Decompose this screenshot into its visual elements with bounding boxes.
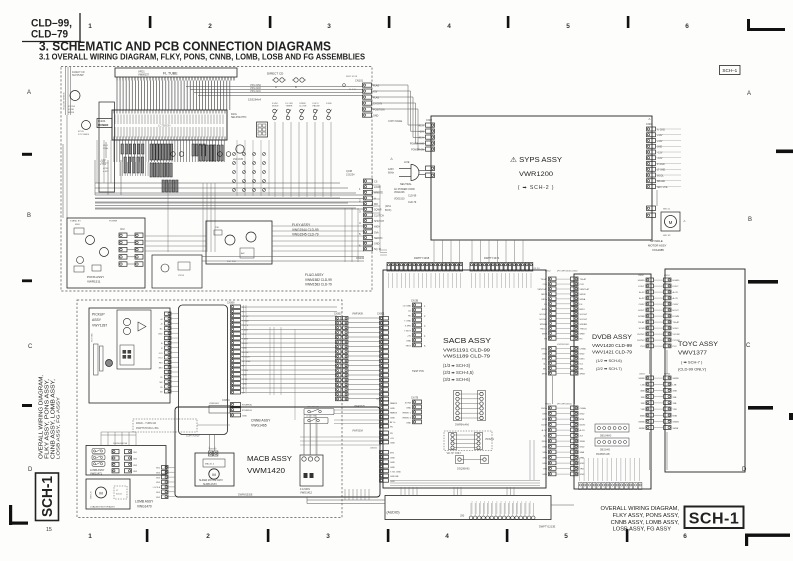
svg-text:Y3B: Y3B — [640, 409, 645, 411]
svg-text:DWPM1535E: DWPM1535E — [238, 494, 253, 497]
svg-text:CSYNC: CSYNC — [637, 340, 645, 342]
svg-text:5: 5 — [566, 23, 570, 30]
svg-text:DB31H43: DB31H43 — [600, 450, 611, 452]
svg-text:C3O: C3O — [543, 284, 548, 286]
svg-text:RTURN B: RTURN B — [242, 410, 252, 412]
svg-text:SHUTCH: SHUTCH — [374, 220, 384, 223]
svg-text:4: 4 — [445, 533, 449, 540]
svg-text:CLD-99: CLD-99 — [408, 194, 417, 197]
svg-text:VW3170: VW3170 — [91, 490, 93, 499]
svg-text:REMO 2: REMO 2 — [403, 418, 412, 420]
svg-text:33B: 33B — [673, 397, 677, 399]
svg-text:M: M — [99, 491, 102, 496]
svg-text:CN306: CN306 — [227, 302, 235, 305]
svg-text:AC H: AC H — [419, 137, 425, 140]
svg-text:3: 3 — [327, 23, 331, 30]
svg-text:CHSA: CHSA — [541, 407, 548, 410]
svg-text:FL TUBE: FL TUBE — [163, 72, 178, 76]
svg-text:BTM: BTM — [580, 419, 585, 421]
svg-text:VWV1420 CLD-99: VWV1420 CLD-99 — [592, 343, 633, 348]
svg-text:GND: GND — [580, 447, 585, 449]
svg-text:LIVE: LIVE — [404, 161, 410, 164]
svg-text:MO: MO — [374, 203, 378, 206]
svg-text:PONS ASSY: PONS ASSY — [87, 275, 104, 279]
svg-text:THOLD: THOLD — [540, 329, 548, 331]
svg-text:LD: LD — [408, 311, 411, 313]
svg-text:COPY/GN&E: COPY/GN&E — [388, 120, 403, 123]
svg-text:F.USE: F.USE — [68, 109, 75, 111]
svg-text:VDG1510: VDG1510 — [394, 198, 405, 201]
svg-text:B: B — [27, 213, 31, 219]
svg-text:VWS1191 CLD-99: VWS1191 CLD-99 — [443, 348, 491, 353]
svg-text:A+3V: A+3V — [639, 297, 645, 300]
svg-text:SRB: SRB — [580, 458, 585, 460]
svg-text:2SC1345: 2SC1345 — [233, 158, 244, 161]
svg-text:VWRSP0805: VWRSP0805 — [557, 344, 570, 346]
svg-text:+13V: +13V — [657, 141, 663, 143]
svg-text:CHSA: CHSA — [541, 348, 548, 351]
svg-text:DWPTST1539-1-35A: DWPTST1539-1-35A — [136, 427, 159, 430]
svg-text:GND BB: GND BB — [390, 476, 399, 478]
svg-text:SCH3: SCH3 — [673, 328, 680, 330]
svg-text:ASSY: ASSY — [92, 318, 102, 322]
svg-text:SRL 9P: SRL 9P — [663, 235, 671, 237]
svg-text:CN102: CN102 — [356, 256, 365, 260]
svg-text:GND: GND — [542, 474, 547, 476]
svg-text:–13V: –13V — [657, 158, 663, 160]
svg-text:CN304: CN304 — [222, 399, 230, 402]
svg-text:DWPB4x4A6: DWPB4x4A6 — [455, 424, 470, 427]
svg-text:POWER ON: POWER ON — [411, 150, 424, 152]
svg-text:VWV1421 CLD-79: VWV1421 CLD-79 — [592, 350, 633, 355]
svg-text:(2/2 ➡ SCH-7): (2/2 ➡ SCH-7) — [596, 366, 622, 371]
svg-text:2: 2 — [208, 23, 212, 30]
svg-text:53X1: 53X1 — [580, 359, 586, 361]
svg-text:HGMG: HGMG — [638, 280, 645, 282]
svg-text:CN07: CN07 — [646, 123, 653, 126]
svg-text:CHSA: CHSA — [580, 348, 587, 351]
svg-text:CN 3O: CN 3O — [533, 268, 540, 270]
svg-text:VWR1511: VWR1511 — [87, 280, 101, 284]
svg-text:CN 3B: CN 3B — [411, 300, 418, 303]
svg-text:VWG1412: VWG1412 — [300, 491, 313, 495]
svg-text:CN 7B: CN 7B — [411, 397, 418, 400]
svg-text:CH3V: CH3V — [639, 304, 645, 306]
svg-text:3L103: 3L103 — [116, 494, 122, 496]
svg-text:+13V: +13V — [657, 135, 663, 137]
svg-text:A–5V: A–5V — [542, 429, 548, 432]
svg-text:C: C — [746, 343, 751, 349]
svg-text:M: M — [669, 220, 673, 225]
svg-text:OVERALL WIRING DIAGRAM,: OVERALL WIRING DIAGRAM, — [601, 506, 680, 512]
svg-text:GM3B: GM3B — [638, 422, 645, 424]
svg-text:VENTLAT: VENTLAT — [537, 288, 547, 291]
svg-text:HGMG: HGMG — [673, 280, 680, 282]
svg-text:DVDB ASSY: DVDB ASSY — [592, 334, 633, 341]
svg-text:LOMB ASSY: LOMB ASSY — [135, 500, 154, 504]
svg-text:SCOHT: SCOHT — [539, 319, 547, 321]
svg-text:TSLAT: TSLAT — [638, 321, 645, 324]
svg-text:SCH-1: SCH-1 — [40, 476, 56, 517]
svg-text:VDG1046: VDG1046 — [394, 191, 405, 194]
svg-text:VWM1582 CLD-99: VWM1582 CLD-99 — [305, 278, 332, 282]
svg-text:DOMB: DOMB — [673, 316, 680, 318]
svg-text:33B: 33B — [673, 403, 677, 405]
svg-text:VWS1189 CLD-79: VWS1189 CLD-79 — [443, 354, 491, 359]
svg-text:( ➡ SCH-2 ): ( ➡ SCH-2 ) — [518, 185, 555, 191]
svg-text:M3B: M3B — [640, 415, 645, 417]
svg-text:SD3V: SD3V — [541, 425, 547, 427]
svg-text:VWR1200: VWR1200 — [519, 171, 553, 178]
svg-text:BOX): BOX) — [385, 208, 391, 212]
svg-text:⚠ SYPS ASSY: ⚠ SYPS ASSY — [510, 156, 562, 164]
svg-text:DOMB: DOMB — [638, 316, 645, 318]
svg-text:KB11 917A: KB11 917A — [346, 75, 357, 78]
svg-text:15: 15 — [46, 527, 52, 533]
svg-text:MODE: MODE — [272, 106, 279, 108]
svg-text:SCH3: SCH3 — [639, 328, 646, 330]
svg-text:CN02: CN02 — [426, 119, 433, 122]
svg-text:A: A — [275, 85, 277, 89]
svg-text:(1/2 ➡ SCH-6): (1/2 ➡ SCH-6) — [596, 358, 622, 363]
svg-text:LT GND: LT GND — [657, 170, 666, 172]
svg-text:DWPTY1368: DWPTY1368 — [414, 256, 430, 260]
svg-text:5L 5 5L: 5L 5 5L — [349, 89, 357, 91]
svg-text:1SS254: 1SS254 — [346, 174, 355, 177]
svg-text:HOUT: HOUT — [638, 310, 645, 312]
svg-text:SUP.PUMP: SUP.PUMP — [72, 75, 84, 77]
svg-text:Y3B: Y3B — [673, 409, 678, 411]
svg-text:MODL: MODL — [657, 175, 664, 177]
svg-text:VWV1377: VWV1377 — [678, 351, 707, 357]
svg-text:L3B: L3B — [673, 384, 677, 386]
svg-text:SCOHT: SCOHT — [539, 314, 547, 316]
svg-text:D10B: D10B — [326, 103, 332, 105]
svg-text:3M3B: 3M3B — [639, 428, 645, 430]
svg-text:CHSA: CHSA — [580, 407, 587, 410]
svg-text:SRVA: SRVA — [541, 298, 547, 301]
svg-text:GND: GND — [373, 115, 379, 118]
svg-text:CN3C: CN3C — [638, 275, 644, 277]
svg-text:VWM1420: VWM1420 — [247, 466, 285, 475]
svg-text:1: 1 — [88, 23, 92, 30]
svg-text:2: 2 — [206, 533, 210, 540]
svg-text:SACB ASSY: SACB ASSY — [443, 338, 491, 345]
svg-text:CN303: CN303 — [334, 313, 342, 316]
svg-text:STON3: STON3 — [68, 106, 76, 108]
svg-text:T MOT: T MOT — [404, 331, 411, 333]
svg-text:60Hz: 60Hz — [388, 172, 395, 175]
svg-text:M: M — [212, 472, 215, 477]
svg-text:LOSB ASSY, FG ASSY: LOSB ASSY, FG ASSY — [613, 527, 672, 533]
svg-text:6: 6 — [683, 533, 687, 540]
svg-text:A: A — [747, 91, 751, 97]
svg-text:3NB: 3NB — [673, 391, 678, 393]
svg-text:(1/3 ➡ SCH-3): (1/3 ➡ SCH-3) — [443, 363, 471, 368]
svg-text:TEST PIN: TEST PIN — [412, 369, 424, 373]
svg-text:33B: 33B — [641, 397, 645, 399]
svg-text:GND: GND — [542, 463, 547, 465]
svg-text:3 3RV: 3 3RV — [405, 326, 412, 328]
svg-text:A+3V: A+3V — [673, 291, 679, 294]
svg-text:VSYNC: VSYNC — [637, 334, 645, 336]
svg-text:VSYNC: VSYNC — [673, 334, 681, 336]
svg-text:CN42: CN42 — [572, 271, 578, 273]
svg-text:SRV. LT3L: SRV. LT3L — [657, 187, 669, 189]
svg-text:"LD-79" ONLY: "LD-79" ONLY — [446, 452, 462, 455]
svg-text:–30V: –30V — [419, 132, 425, 134]
svg-text:DIRECT CD: DIRECT CD — [267, 72, 284, 76]
svg-text:GND: GND — [390, 457, 395, 459]
svg-text:3NB: 3NB — [640, 391, 645, 393]
svg-text:KOUT: KOUT — [673, 286, 680, 288]
svg-text:(CLD-99 ONLY): (CLD-99 ONLY) — [678, 367, 707, 372]
svg-text:VXA1985: VXA1985 — [652, 248, 664, 252]
svg-text:LD GND: LD GND — [403, 306, 412, 308]
svg-text:TEST: TEST — [405, 346, 411, 348]
svg-text:CN3F: CN3F — [376, 399, 382, 401]
svg-text:(FT13RY1363): (FT13RY1363) — [557, 404, 572, 406]
svg-text:LOCK A: LOCK A — [153, 486, 161, 489]
svg-text:⚠: ⚠ — [683, 219, 686, 223]
svg-text:PARK3: PARK3 — [390, 402, 398, 405]
svg-text:TSLAT: TSLAT — [540, 278, 547, 281]
svg-text:SRB: SRB — [543, 458, 548, 460]
svg-text:B: B — [748, 217, 752, 223]
svg-text:(W11: (W11 — [385, 204, 392, 208]
svg-text:SQWR: SQWR — [374, 209, 382, 212]
svg-text:SRA: SRA — [543, 451, 548, 454]
svg-text:GND: GND — [580, 354, 585, 356]
svg-text:SONS: SONS — [405, 403, 412, 405]
svg-text:MOTOR ASSY: MOTOR ASSY — [648, 244, 667, 248]
svg-text:2SC 2SC: 2SC 2SC — [227, 261, 237, 263]
svg-text:GND: GND — [406, 341, 411, 343]
svg-text:CNNB ASSY, LOMB ASSY,: CNNB ASSY, LOMB ASSY, — [611, 520, 680, 526]
svg-text:VWW237: VWW237 — [138, 73, 150, 77]
svg-text:PAUSE: PAUSE — [313, 105, 321, 108]
svg-text:2SD: 2SD — [215, 227, 220, 229]
svg-text:CH3V: CH3V — [673, 304, 679, 306]
svg-text:VWR3081: VWR3081 — [209, 403, 220, 405]
svg-text:KOUT: KOUT — [638, 286, 645, 288]
svg-text:M3B: M3B — [673, 415, 678, 417]
svg-text:POWER: POWER — [109, 221, 118, 223]
svg-text:TSLAT: TSLAT — [673, 321, 680, 324]
svg-text:GND: GND — [242, 415, 247, 417]
svg-text:B7 05: B7 05 — [78, 131, 84, 133]
svg-text:FLKY ASSY: FLKY ASSY — [292, 223, 311, 227]
svg-text:SPEBB: SPEBB — [540, 324, 548, 326]
svg-text:⚠: ⚠ — [648, 117, 651, 121]
svg-text:1: 1 — [88, 533, 92, 540]
svg-text:GND: GND — [390, 417, 395, 419]
svg-text:VWG1470: VWG1470 — [137, 505, 152, 509]
svg-text:4.022: 4.022 — [103, 171, 109, 173]
svg-text:3M3B: 3M3B — [673, 428, 679, 430]
svg-text:( ➡ SCH-7 ): ( ➡ SCH-7 ) — [681, 360, 703, 365]
svg-text:VWG1471: VWG1471 — [90, 472, 103, 476]
svg-text:MACB ASSY: MACB ASSY — [247, 454, 292, 463]
svg-text:PD: PD — [408, 316, 411, 318]
svg-text:GND: GND — [657, 147, 662, 149]
svg-text:TILT SEN: TILT SEN — [92, 333, 94, 342]
svg-text:HOUT: HOUT — [673, 310, 680, 312]
svg-text:CN33: CN33 — [639, 374, 645, 376]
svg-text:DTC134ES: DTC134ES — [78, 134, 90, 136]
svg-text:REMO 1: REMO 1 — [403, 413, 412, 415]
svg-text:GND: GND — [542, 447, 547, 449]
svg-text:CN301: CN301 — [377, 313, 385, 316]
svg-text:VWS251: VWS251 — [485, 439, 495, 441]
svg-text:GND: GND — [406, 408, 411, 410]
svg-text:PD: PD — [390, 433, 393, 435]
svg-text:SRA: SRA — [580, 451, 585, 454]
svg-text:VW13: VW13 — [178, 275, 185, 277]
svg-text:(2/3 ➡ SCH-4,5): (2/3 ➡ SCH-4,5) — [443, 370, 474, 375]
svg-text:A–5V: A–5V — [580, 429, 586, 432]
svg-text:COPY/GALV: COPY/GALV — [186, 435, 200, 438]
svg-text:47/02: 47/02 — [103, 168, 109, 170]
svg-text:CN315: CN315 — [370, 448, 378, 450]
svg-text:3FSE: 3FSE — [580, 441, 586, 443]
svg-text:MSU: MSU — [75, 224, 80, 226]
svg-text:FL&G ASSY: FL&G ASSY — [305, 273, 324, 277]
svg-text:PD: PD — [390, 427, 393, 429]
svg-text:SCH–1: SCH–1 — [722, 68, 737, 73]
svg-text:GND: GND — [580, 414, 585, 416]
svg-text:CLD-79: CLD-79 — [408, 201, 417, 204]
svg-text:TSLAT: TSLAT — [580, 278, 587, 281]
svg-text:5: 5 — [564, 533, 568, 540]
svg-text:A: A — [27, 90, 31, 96]
svg-text:T.TI/L GND: T.TI/L GND — [390, 472, 401, 474]
svg-text:CN42: CN42 — [545, 271, 551, 273]
svg-text:(AUDIO): (AUDIO) — [387, 511, 400, 515]
svg-text:(FT13RY1345): (FT13RY1345) — [557, 271, 572, 273]
svg-text:+5V: +5V — [407, 336, 411, 338]
svg-text:CN43: CN43 — [545, 404, 551, 406]
svg-text:VWG1465: VWG1465 — [251, 424, 267, 428]
svg-text:GND: GND — [406, 423, 411, 425]
svg-text:T GND: T GND — [404, 321, 411, 323]
svg-text:AC H: AC H — [419, 125, 425, 128]
svg-text:GND: GND — [158, 333, 163, 335]
svg-text:DB10H643: DB10H643 — [600, 436, 612, 438]
svg-text:A+3V: A+3V — [639, 291, 645, 294]
svg-text:SPEBB: SPEBB — [580, 324, 588, 326]
svg-text:NEUTRAL: NEUTRAL — [400, 183, 412, 186]
svg-text:TOYC ASSY: TOYC ASSY — [678, 341, 719, 348]
svg-text:D-RECT CD: D-RECT CD — [72, 72, 85, 74]
svg-text:DWPB4514B: DWPB4514B — [596, 454, 610, 456]
svg-text:SD3V: SD3V — [580, 425, 586, 427]
svg-text:GND: GND — [390, 443, 395, 445]
svg-text:CN101: CN101 — [355, 79, 364, 83]
svg-text:A+3V: A+3V — [673, 297, 679, 300]
svg-text:CLUTCH: CLUTCH — [374, 214, 384, 217]
svg-text:4: 4 — [447, 23, 451, 30]
svg-text:GND: GND — [390, 481, 395, 483]
svg-text:GND: GND — [542, 354, 547, 356]
svg-text:RWO: RWO — [580, 309, 586, 311]
svg-text:SERVO: SERVO — [374, 237, 382, 240]
svg-text:RTURN A: RTURN A — [242, 404, 252, 407]
svg-text:AT 3+: AT 3+ — [390, 421, 396, 424]
svg-text:DWPTY1213E: DWPTY1213E — [539, 526, 556, 529]
svg-text:CLOSE: CLOSE — [299, 106, 307, 108]
svg-text:SP INDLE: SP INDLE — [650, 239, 663, 243]
svg-text:SCH-1: SCH-1 — [689, 511, 740, 528]
svg-text:GND: GND — [374, 243, 380, 246]
svg-text:VWP3325: VWP3325 — [354, 405, 365, 408]
svg-text:DSQ0BH63: DSQ0BH63 — [457, 468, 470, 471]
svg-text:THOLD: THOLD — [580, 329, 588, 331]
svg-text:GM3B: GM3B — [673, 422, 680, 424]
svg-text:SM3B: SM3B — [673, 378, 679, 380]
svg-text:L3B: L3B — [641, 384, 645, 386]
svg-text:RWO: RWO — [542, 309, 548, 311]
svg-text:B: B — [295, 85, 297, 89]
svg-text:SLIDER MOTOR ASSY: SLIDER MOTOR ASSY — [199, 479, 224, 482]
svg-text:VWM1583 CLD-79: VWM1583 CLD-79 — [305, 283, 332, 287]
svg-text:3F5B: 3F5B — [580, 373, 586, 375]
svg-text:SVA: SVA — [374, 231, 379, 234]
svg-text:MAC31 4: MAC31 4 — [205, 463, 215, 466]
svg-text:SELP3147TN: SELP3147TN — [231, 116, 246, 119]
svg-text:PICKUP: PICKUP — [92, 313, 105, 317]
svg-text:CNNB ASSY: CNNB ASSY — [251, 419, 271, 423]
svg-text:LOADING MOTOR ASSY: LOADING MOTOR ASSY — [90, 506, 115, 509]
svg-text:53X1: 53X1 — [542, 359, 548, 361]
svg-text:VWG1544 CLD-99: VWG1544 CLD-99 — [292, 228, 319, 232]
svg-text:SCOHT: SCOHT — [580, 319, 588, 321]
svg-text:SRVB: SRVB — [541, 294, 547, 296]
svg-text:SRVA: SRVA — [580, 298, 586, 301]
svg-text:YELLOW GREEN: YELLOW GREEN — [64, 92, 66, 110]
svg-text:LC75853N: LC75853N — [158, 124, 171, 128]
svg-text:POWER UNS: POWER UNS — [410, 144, 425, 146]
svg-text:(3/3 ➡ SCH-6): (3/3 ➡ SCH-6) — [443, 377, 471, 382]
svg-text:VENTLAT: VENTLAT — [580, 288, 590, 291]
svg-text:6: 6 — [685, 23, 689, 30]
svg-text:STAND BY: STAND BY — [70, 220, 81, 223]
svg-text:C101: C101 — [101, 160, 107, 162]
svg-text:D: D — [28, 467, 33, 473]
svg-text:RAM3 – TURN GR: RAM3 – TURN GR — [136, 422, 156, 425]
svg-text:–13V: –13V — [657, 152, 663, 154]
svg-text:HIGH: HIGH — [374, 226, 380, 229]
svg-text:VWY1287: VWY1287 — [92, 324, 107, 328]
svg-text:LOSB ASSY, FG ASSY: LOSB ASSY, FG ASSY — [56, 397, 61, 459]
svg-text:GND: GND — [390, 462, 395, 464]
svg-text:LOSB ASSY: LOSB ASSY — [90, 468, 105, 472]
svg-text:P. GND: P. GND — [657, 164, 665, 166]
svg-text:C3O: C3O — [580, 284, 585, 286]
svg-text:PARK3: PARK3 — [390, 412, 398, 415]
svg-text:3: 3 — [326, 533, 330, 540]
svg-text:FLKY ASSY, PONS ASSY,: FLKY ASSY, PONS ASSY, — [613, 513, 680, 519]
svg-text:BTM: BTM — [542, 419, 547, 421]
svg-text:VSS 2101: VSS 2101 — [250, 90, 261, 93]
svg-text:3.1 OVERALL WIRING DIAGRAM, FL: 3.1 OVERALL WIRING DIAGRAM, FLKY, PONS, … — [39, 51, 365, 61]
svg-text:J50: J50 — [460, 514, 465, 518]
svg-text:SQ. M: SQ. M — [374, 248, 381, 251]
svg-text:CS: CS — [374, 180, 378, 183]
svg-text:MOSS: MOSS — [68, 112, 75, 114]
svg-text:LD 115 GB: LD 115 GB — [306, 416, 316, 418]
svg-text:SCOHT: SCOHT — [580, 314, 588, 316]
